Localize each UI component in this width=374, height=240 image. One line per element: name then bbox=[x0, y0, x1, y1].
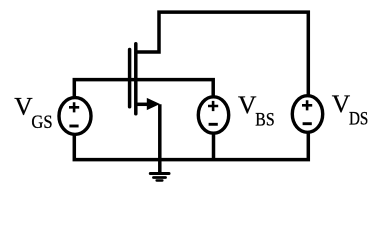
svg-text:V: V bbox=[332, 89, 351, 118]
svg-text:DS: DS bbox=[349, 108, 368, 129]
svg-text:V: V bbox=[14, 91, 33, 120]
svg-text:BS: BS bbox=[255, 110, 274, 131]
svg-text:V: V bbox=[238, 90, 257, 119]
svg-text:GS: GS bbox=[31, 112, 52, 133]
